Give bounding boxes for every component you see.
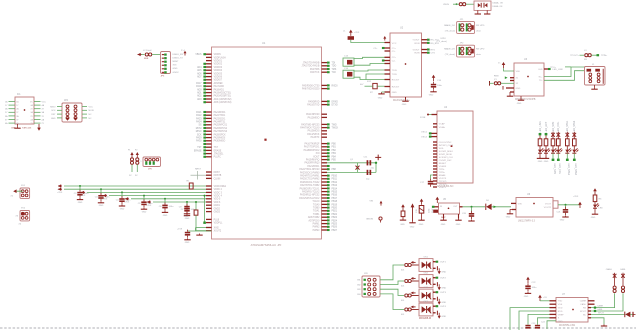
svg-text:dnstr: dnstr [476, 29, 481, 32]
svg-text:+3V3: +3V3 [573, 196, 579, 198]
svg-text:VDDC 3: VDDC 3 [214, 192, 223, 194]
svg-text:+3V3: +3V3 [57, 192, 63, 194]
svg-text:S: S [558, 318, 560, 320]
capacitor C20 [462, 207, 475, 221]
svg-text:3V3E: 3V3E [420, 117, 426, 119]
U1 left pin y=153.6 [203, 153, 224, 156]
svg-text:PLLRC: PLLRC [214, 157, 222, 159]
svg-text:C2: C2 [74, 193, 78, 195]
svg-text:PA26/NPCS2: PA26/NPCS2 [214, 127, 228, 130]
svg-text:JP1: JP1 [460, 19, 465, 21]
opto OK2 output pin [433, 277, 447, 280]
svg-text:TDO: TDO [332, 66, 337, 68]
svg-text:CANH: CANH [580, 300, 587, 303]
U4 left pin TPOUT- [433, 181, 447, 183]
JP3 net labels [173, 54, 184, 74]
svg-text:GND: GND [560, 219, 565, 221]
agnd cross symbol [375, 155, 381, 161]
inductor L2 ferrite near JP3 [138, 50, 161, 60]
svg-text:TCK: TCK [332, 72, 337, 74]
svg-text:U1: U1 [262, 41, 266, 45]
svg-text:R1IN: R1IN [415, 43, 420, 45]
svg-text:3Y: 3Y [16, 119, 19, 121]
capacitor C13 with loop wires [343, 56, 354, 67]
svg-text:GND: GND [378, 98, 383, 100]
svg-text:VDDIO6: VDDIO6 [214, 77, 223, 79]
U1 right pin y=172.4 [300, 171, 327, 174]
svg-text:PB15: PB15 [332, 192, 338, 194]
svg-text:RX UPD: RX UPD [476, 25, 485, 27]
svg-text:MISO: MISO [50, 106, 56, 108]
U4 left pin TPOUT+ [433, 184, 448, 186]
svg-text:RXD0: RXD0 [332, 85, 339, 87]
svg-text:OK1: OK1 [424, 256, 429, 258]
connector JP5 1x4 [140, 157, 160, 170]
svg-text:PB5: PB5 [332, 160, 337, 162]
U2 left pins [373, 43, 390, 93]
svg-text:AD5 (AD/NPCS3): AD5 (AD/NPCS3) [214, 101, 232, 104]
U4 left pin CLKOUT/NC [433, 142, 452, 144]
svg-text:TPIN+: TPIN+ [601, 55, 608, 57]
svg-text:GND: GND [429, 95, 434, 97]
svg-text:GND: GND [591, 217, 596, 219]
svg-text:C19: C19 [416, 208, 418, 213]
svg-text:RBIAS: RBIAS [439, 174, 446, 177]
svg-text:GND: GND [456, 224, 461, 226]
U1 left pin y=219.4 [206, 219, 220, 221]
svg-text:NC: NC [89, 118, 93, 120]
ground below U6 left [506, 210, 516, 219]
wire U7 RXD from bottom [519, 311, 556, 330]
input arrow OK1 [400, 261, 416, 265]
svg-text:4k7: 4k7 [360, 84, 364, 86]
IC U7 CAN transceiver [556, 294, 588, 327]
svg-text:1Y: 1Y [16, 105, 19, 107]
svg-text:MADE_DO: MADE_DO [444, 48, 455, 51]
net label between headers [437, 38, 448, 43]
svg-text:LED: LED [599, 208, 604, 210]
svg-text:AD4 (AD/NPCS2): AD4 (AD/NPCS2) [214, 98, 232, 101]
svg-text:IC1: IC1 [17, 94, 21, 96]
svg-text:R1OUT: R1OUT [392, 79, 400, 81]
svg-text:(TX_dnstr): (TX_dnstr) [445, 53, 456, 56]
svg-text:PA30/MISO: PA30/MISO [214, 140, 226, 143]
svg-text:LED_SPD: LED_SPD [553, 163, 556, 174]
U1 right pin y=143.6 [305, 143, 337, 146]
svg-text:PB23: PB23 [332, 217, 338, 219]
ground below C6 [164, 211, 166, 213]
connector JP3 [161, 52, 171, 78]
svg-text:GND: GND [400, 224, 405, 226]
svg-text:PA9/DRXD: PA9/DRXD [308, 100, 319, 103]
svg-text:U7: U7 [562, 294, 566, 296]
svg-text:PA23/SCK1: PA23/SCK1 [214, 117, 227, 120]
svg-text:(TX_dnstr): (TX_dnstr) [437, 40, 448, 43]
capacitor C9 [179, 202, 190, 218]
capacitor C14 with loop wires [343, 68, 354, 78]
svg-text:DBGU_RX: DBGU_RX [173, 54, 184, 56]
svg-text:PA22/TXD1-NPCS3: PA22/TXD1-NPCS3 [299, 168, 320, 171]
svg-text:GND: GND [402, 104, 407, 106]
junction bus line 2 [100, 188, 102, 190]
svg-text:PA28/SPCK: PA28/SPCK [214, 133, 227, 136]
svg-text:NC: NC [583, 314, 587, 316]
LED chain D3 LED_ACT [543, 121, 550, 163]
U1 right pin y=182.0 [300, 181, 338, 184]
frame bottom dashed border [0, 327, 636, 329]
svg-text:PB10: PB10 [332, 176, 338, 178]
capacitor C10 [177, 229, 191, 245]
svg-text:MADE_DO: MADE_DO [444, 24, 455, 27]
svg-text:C22: C22 [532, 282, 537, 284]
input arrow OK3 [400, 292, 416, 296]
svg-text:R2IN: R2IN [415, 53, 420, 55]
wire U7 S with capacitor C24 [535, 318, 556, 329]
svg-text:100n: 100n [169, 206, 175, 208]
svg-text:VSSA: VSSA [439, 126, 445, 129]
svg-text:L2 10uH: L2 10uH [143, 50, 152, 52]
resistor R1 inline on bus line 1 [187, 181, 194, 190]
U1 left pin y=89.4 [197, 88, 225, 91]
svg-text:PA17/TD/PCK1: PA17/TD/PCK1 [304, 146, 320, 149]
wire crystal bottom [327, 171, 376, 173]
svg-text:MOSI: MOSI [89, 110, 95, 112]
svg-text:AD6/TIOB2: AD6/TIOB2 [308, 216, 320, 219]
svg-text:1: 1 [140, 161, 142, 163]
svg-text:PA24/RTS1-PWM1: PA24/RTS1-PWM1 [300, 175, 320, 178]
ground below U2 left [378, 92, 385, 100]
U1 right pin y=166.0 [307, 165, 329, 168]
U7 right pin stub 1 [588, 300, 595, 302]
U1 left pin NRST with crosshair wire [191, 169, 221, 180]
svg-text:PA30: PA30 [196, 140, 202, 143]
capacitor C3 [95, 189, 110, 207]
svg-text:4Y: 4Y [30, 109, 33, 111]
U1 left power pin y=202.0 [206, 202, 221, 204]
wire U7 CANH [588, 293, 615, 309]
svg-text:C2+: C2+ [392, 57, 397, 59]
svg-text:OUT1: OUT1 [440, 262, 447, 264]
svg-text:3Y: 3Y [42, 116, 45, 118]
svg-text:GND: GND [419, 224, 424, 226]
U1 right pin y=162.8 [305, 162, 327, 165]
svg-text:XIN2: XIN2 [214, 227, 220, 229]
svg-text:TWD: TWD [332, 124, 337, 126]
ground right edge [633, 312, 636, 317]
LED chain D4 LED_SPD [551, 121, 557, 174]
svg-text:C11: C11 [364, 157, 369, 159]
connector JP6 opto input header [357, 273, 380, 297]
svg-text:SCK/SPI_CLK: SCK/SPI_CLK [439, 157, 454, 159]
svg-text:PA25/CTS1-PWM2: PA25/CTS1-PWM2 [300, 178, 320, 181]
svg-text:GND: GND [410, 226, 415, 228]
fuse F6 [401, 263, 419, 271]
svg-text:CLKIN: CLKIN [214, 178, 221, 180]
U1 right pin y=207.6 [313, 207, 338, 210]
svg-text:TIOA0: TIOA0 [313, 203, 320, 206]
svg-text:J1: J1 [592, 64, 595, 66]
svg-text:NRST: NRST [173, 61, 180, 63]
svg-text:CS/SPI_SS2: CS/SPI_SS2 [439, 160, 452, 162]
svg-text:TIOB1: TIOB1 [313, 214, 320, 216]
svg-text:PA3/TCK: PA3/TCK [310, 71, 320, 74]
U7 right pin stub 2 [588, 303, 595, 305]
svg-text:PA23: PA23 [196, 117, 202, 120]
svg-text:PA15/TF: PA15/TF [311, 136, 320, 139]
resistor R2 inline vertical [194, 201, 198, 231]
fuse F8 [401, 294, 419, 302]
svg-text:RXD: RXD [558, 311, 563, 313]
U1 left power pin y=189.2 [206, 189, 223, 191]
LED chain D2 LED_LINK [537, 121, 544, 163]
svg-text:OSC2: OSC2 [421, 137, 428, 139]
U1 left pin y=175.2 [206, 175, 222, 177]
svg-text:C2-: C2- [392, 60, 396, 62]
fuse F10 vertical CANH [606, 268, 617, 292]
svg-text:PA13/MOSI: PA13/MOSI [308, 130, 320, 133]
U1 left pin y=211.6 [206, 212, 221, 214]
wire JP6 to opto OK2 [380, 281, 400, 285]
svg-text:C6: C6 [159, 206, 163, 208]
U1 left pin y=63.8 [203, 63, 222, 66]
svg-text:OK3: OK3 [424, 287, 429, 289]
svg-text:PLLB: PLLB [214, 219, 220, 221]
svg-text:C1-: C1- [392, 51, 396, 53]
U1 right pin y=114.2 [306, 113, 327, 116]
U1 right pin y=210.8 [313, 210, 338, 213]
wire U3 TD- to jack [544, 71, 585, 81]
svg-text:+3V3: +3V3 [124, 202, 130, 204]
svg-text:AD1: AD1 [197, 92, 202, 95]
svg-text:RTS: RTS [431, 49, 436, 51]
svg-text:PA28/DSR1-TCLK1: PA28/DSR1-TCLK1 [300, 187, 320, 190]
opto OK2 emitter pin [433, 282, 447, 290]
svg-text:PB22: PB22 [332, 214, 338, 216]
U1 right pin y=198.0 [299, 197, 337, 200]
svg-text:PB17: PB17 [332, 198, 338, 200]
U1 left power pin y=195.6 [206, 196, 223, 198]
svg-text:TMS: TMS [332, 69, 337, 71]
svg-text:SI/SPI_MOSI: SI/SPI_MOSI [439, 154, 452, 156]
svg-text:VDDC 2: VDDC 2 [214, 189, 223, 191]
svg-text:PA21: PA21 [196, 111, 202, 114]
ground below C3 [100, 201, 102, 203]
U1 left pin y=121.6 [196, 121, 226, 124]
svg-text:U5: U5 [443, 199, 447, 201]
svg-text:GND: GND [441, 224, 446, 226]
svg-text:GND: GND [173, 68, 178, 70]
svg-text:PA12/MISO: PA12/MISO [308, 116, 320, 119]
U2 right pins [422, 39, 440, 55]
svg-text:PA18/AD1: PA18/AD1 [214, 88, 225, 91]
wire U7 GND pin down [547, 321, 556, 329]
U1 left power pin y=186.0 [206, 186, 227, 188]
svg-text:RESET: RESET [439, 163, 447, 165]
wire to lower cap [188, 230, 212, 232]
svg-text:TPO+: TPO+ [550, 67, 556, 69]
svg-text:PA16/TK/IRQF: PA16/TK/IRQF [305, 143, 320, 146]
svg-text:AD5: AD5 [197, 69, 202, 72]
svg-text:3A: 3A [16, 115, 19, 118]
svg-text:PA20/AD3(RTS1): PA20/AD3(RTS1) [214, 95, 232, 98]
U4 XTAL pins [421, 132, 437, 139]
svg-text:VREF: VREF [558, 314, 564, 316]
U1 left pin y=134.4 [197, 133, 226, 136]
svg-text:DATA+ OK: DATA+ OK [493, 2, 504, 5]
svg-text:PA22/TXD1: PA22/TXD1 [214, 114, 226, 117]
svg-text:OUT4: OUT4 [440, 306, 447, 308]
svg-text:FER: FER [144, 58, 149, 60]
svg-text:LED_SPD: LED_SPD [552, 121, 555, 132]
svg-text:PA23/SCK1-PWM0: PA23/SCK1-PWM0 [300, 171, 320, 174]
svg-text:2A: 2A [5, 108, 8, 111]
svg-text:GND: GND [516, 88, 521, 90]
ground below J1 [591, 85, 597, 89]
U1 left pin y=147.2 [197, 146, 218, 149]
connector JP4 2x4 header [50, 100, 94, 122]
opto OK1 emitter pin [433, 266, 447, 274]
capacitor C7 [181, 202, 196, 220]
svg-text:GND: GND [120, 208, 125, 210]
svg-text:2Y: 2Y [16, 112, 19, 114]
U1 right pin y=134.0 [307, 133, 327, 136]
ground below U3 [517, 96, 525, 105]
wire D6 to U6 [492, 206, 511, 209]
ground below U2 bottom pin [402, 97, 409, 106]
svg-text:C4: C4 [116, 200, 120, 202]
svg-text:U2: U2 [400, 27, 404, 30]
svg-text:PB27: PB27 [332, 230, 338, 232]
svg-text:TIOB0: TIOB0 [313, 208, 320, 210]
svg-text:22p: 22p [371, 167, 375, 169]
svg-text:VDDFLASH: VDDFLASH [214, 56, 226, 59]
svg-text:601: 601 [401, 285, 405, 287]
capacitor C16 right of U2 [429, 75, 443, 97]
svg-text:GND1: GND1 [214, 205, 221, 207]
svg-text:MOSI: MOSI [196, 128, 202, 130]
U1 right pin y=156.4 [313, 155, 336, 158]
U5 left pin [432, 206, 439, 213]
wire C14 to U2 [354, 70, 385, 80]
svg-text:PA22: PA22 [196, 114, 202, 117]
U1 right pin y=188.4 [300, 187, 338, 190]
svg-text:X1: X1 [494, 79, 497, 81]
svg-text:VDDIO5: VDDIO5 [214, 73, 223, 75]
U1 right pin y=65.8 [301, 65, 336, 68]
svg-text:PB26: PB26 [332, 227, 338, 229]
supply arrow bus line 2 [57, 188, 63, 195]
svg-text:GND: GND [78, 202, 83, 204]
svg-text:R6: R6 [599, 199, 603, 201]
svg-text:R?: R? [370, 92, 374, 94]
supply arrow bus line 6 [146, 200, 152, 207]
U1 right pin y=201.2 [312, 200, 337, 203]
IC1 right pins [34, 101, 46, 125]
svg-text:VSSTX: VSSTX [439, 187, 447, 189]
supply arrow above U5 [436, 197, 440, 203]
svg-text:TD-: TD- [539, 80, 543, 82]
wire U7 VDD from bottom [510, 308, 556, 330]
svg-text:PA18: PA18 [196, 85, 202, 88]
svg-text:VDD: VDD [516, 71, 521, 73]
svg-text:GND: GND [392, 92, 397, 94]
U1 right pin y=217.2 [308, 216, 338, 219]
svg-text:PA26/DCD1-TIOA2: PA26/DCD1-TIOA2 [300, 181, 320, 184]
component chain L4 [418, 199, 424, 226]
svg-text:AD7: AD7 [197, 76, 202, 79]
svg-text:VCC: VCC [392, 43, 397, 45]
svg-text:JP2: JP2 [460, 43, 465, 45]
U6 output pin [553, 201, 580, 208]
svg-text:T1IN: T1IN [392, 70, 397, 72]
U1 left pin y=54.2 [195, 53, 221, 56]
U1 right pin y=223.6 [313, 223, 338, 226]
capacitor C6 [159, 199, 174, 217]
IC U2 MAX3232 [390, 27, 422, 103]
U1 left bottom pin y=230.7 [206, 231, 222, 233]
connector SV1 2x2 block [10, 185, 29, 198]
svg-text:TPIN+: TPIN+ [439, 172, 446, 174]
svg-text:GND: GND [524, 296, 529, 298]
svg-text:PB8: PB8 [332, 169, 337, 171]
supply arrow bus line 4 [102, 194, 108, 201]
svg-text:GND: GND [142, 212, 147, 214]
svg-text:PA19/RK/FIQ: PA19/RK/FIQ [306, 159, 320, 162]
U1 left pin y=70.2 [197, 69, 223, 72]
svg-text:VDDTX: VDDTX [439, 178, 447, 180]
IC U6 regulator [516, 193, 553, 223]
svg-text:AD3: AD3 [197, 98, 202, 101]
svg-text:C5: C5 [138, 203, 142, 205]
svg-text:GND: GND [442, 288, 447, 290]
U1 left pin y=118.4 [196, 117, 226, 120]
wire power bus line 2 [64, 188, 206, 190]
U4 left pin SI/SPI_MOSI [433, 154, 452, 156]
svg-text:XIN: XIN [316, 153, 320, 155]
U1 left pin y=57.4 [206, 56, 226, 59]
svg-text:GND2: GND2 [214, 208, 221, 210]
svg-text:2A: 2A [16, 108, 19, 111]
svg-text:3V: 3V [135, 175, 138, 177]
fuse chain F4 [128, 149, 134, 177]
junction bus line 1 [79, 185, 81, 187]
optocoupler OK2 [419, 272, 433, 287]
IC IC1 buffer [11, 94, 34, 130]
U7 left pin stub 2 [550, 303, 557, 305]
svg-text:RS: RS [583, 308, 587, 310]
U1 left pin y=178.4 [206, 178, 221, 180]
svg-text:VIN: VIN [518, 203, 522, 205]
wire U7 NC to ground [588, 318, 607, 326]
svg-text:LED_COL: LED_COL [557, 121, 560, 133]
svg-text:GND: GND [163, 215, 168, 217]
svg-text:TST: TST [214, 147, 219, 149]
svg-text:+3V3: +3V3 [102, 198, 108, 200]
U1 left pin y=208.4 [206, 208, 221, 210]
svg-text:PB16: PB16 [332, 195, 338, 197]
IC U1 main MCU body AT91SAM7S256 [212, 41, 322, 247]
U1 right pin y=88.6 [302, 88, 330, 91]
svg-text:PA29/MOSI: PA29/MOSI [214, 137, 226, 140]
svg-text:R2OUT: R2OUT [392, 86, 400, 88]
optocoupler OK1 [419, 256, 433, 271]
svg-text:C17: C17 [420, 182, 425, 184]
svg-text:LED_STA1: LED_STA1 [566, 120, 569, 132]
svg-text:4A: 4A [5, 122, 8, 125]
svg-text:PA30/IRQ1-NPCS2: PA30/IRQ1-NPCS2 [300, 194, 320, 197]
U7 right labels [597, 304, 605, 314]
ground below C7 [186, 214, 188, 216]
